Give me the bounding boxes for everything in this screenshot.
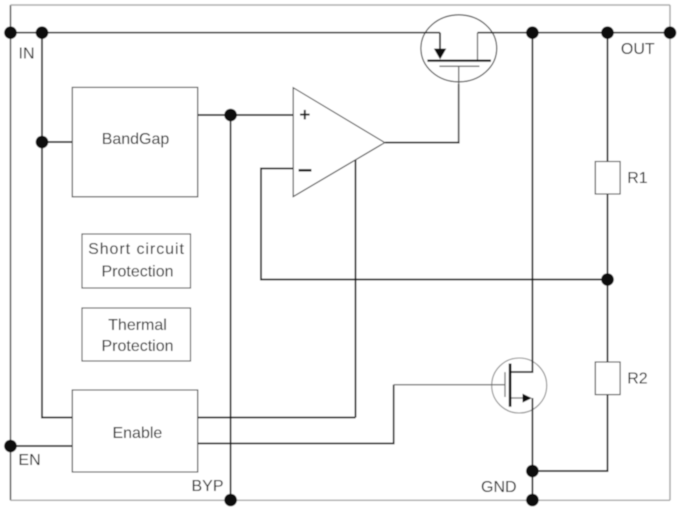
- svg-text:R2: R2: [627, 370, 648, 387]
- svg-text:Protection: Protection: [101, 338, 173, 355]
- svg-text:OUT: OUT: [621, 41, 655, 58]
- svg-text:GND: GND: [481, 479, 517, 496]
- svg-text:Enable: Enable: [112, 425, 162, 442]
- svg-text:IN: IN: [19, 46, 35, 63]
- svg-text:Short circuit: Short circuit: [88, 241, 185, 258]
- svg-text:BandGap: BandGap: [102, 131, 170, 148]
- svg-text:Thermal: Thermal: [108, 317, 167, 334]
- svg-text:BYP: BYP: [192, 478, 224, 495]
- svg-text:R1: R1: [627, 170, 648, 187]
- svg-text:EN: EN: [18, 452, 40, 469]
- svg-text:Protection: Protection: [101, 263, 173, 280]
